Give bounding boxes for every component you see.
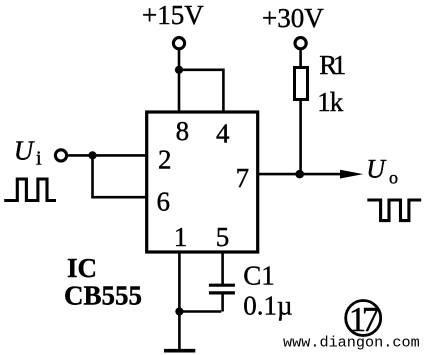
arrow output <box>340 170 363 179</box>
svg-text:6: 6 <box>157 186 171 216</box>
capacitor C1 top plate <box>209 284 235 287</box>
wire C1 to node <box>179 310 221 313</box>
svg-text:5: 5 <box>216 222 230 252</box>
svg-text:8: 8 <box>176 116 190 146</box>
node junction +15V <box>175 66 183 74</box>
svg-text:1k: 1k <box>317 87 344 117</box>
wire to pin4 horizontal <box>179 69 223 72</box>
wire R1 to node7 <box>299 100 302 175</box>
resistor R1 <box>295 68 308 100</box>
svg-text:1: 1 <box>174 222 188 252</box>
input waveform <box>4 179 56 201</box>
svg-text:4: 4 <box>216 118 230 148</box>
svg-text:+15V: +15V <box>142 0 204 30</box>
svg-text:U: U <box>14 135 35 165</box>
wire input branch vertical <box>91 155 94 197</box>
wire pin5 <box>221 252 224 284</box>
svg-text:www.diangon.com: www.diangon.com <box>283 334 420 352</box>
node junction pin1 C1 <box>175 307 183 315</box>
svg-text:o: o <box>389 168 398 188</box>
wire pin4 vertical <box>222 69 225 113</box>
wire pin7 output <box>259 173 346 176</box>
wire +30V to R1 <box>299 50 302 68</box>
terminal Ui input <box>55 150 66 161</box>
wire pin2 <box>68 154 147 157</box>
svg-text:i: i <box>36 148 42 170</box>
svg-text:C1: C1 <box>243 260 275 290</box>
output waveform <box>367 200 421 221</box>
svg-text:U: U <box>366 154 387 183</box>
op-amp U1 IC CB555 box <box>147 112 258 252</box>
ground <box>164 349 195 353</box>
terminal +15V <box>173 38 184 49</box>
badge circle 17 <box>346 301 381 336</box>
node junction input <box>88 151 96 159</box>
svg-text:CB555: CB555 <box>64 281 142 311</box>
svg-text:R1: R1 <box>319 50 345 80</box>
wire C1 down <box>221 293 224 312</box>
wire pin8 vertical <box>178 50 181 112</box>
svg-text:7: 7 <box>236 163 250 193</box>
node junction pin7 R1 <box>295 170 304 179</box>
terminal +30V <box>295 38 306 49</box>
wire pin1 to ground <box>178 252 181 350</box>
svg-text:2: 2 <box>158 144 172 174</box>
svg-text:IC: IC <box>67 253 97 283</box>
wire pin6 <box>91 196 147 199</box>
svg-text:0.1µ: 0.1µ <box>243 291 292 321</box>
capacitor C1 bottom plate <box>209 291 235 294</box>
svg-text:+30V: +30V <box>262 3 324 33</box>
